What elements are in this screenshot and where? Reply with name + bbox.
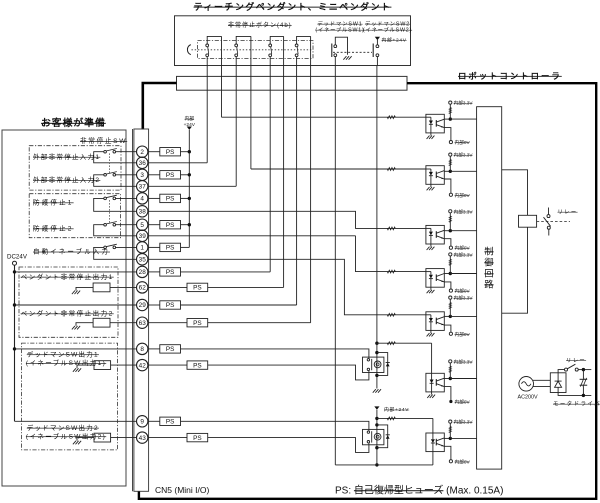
wire PS pin 8 to relay K1 upper contact bbox=[148, 348, 160, 350]
svg-text:3: 3 bbox=[140, 172, 144, 179]
svg-text:外部非常停止入力1: 外部非常停止入力1 bbox=[33, 152, 100, 161]
svg-text:CN5 (Mini I/O): CN5 (Mini I/O) bbox=[155, 485, 209, 495]
svg-text:モータドライバへ: モータドライバへ bbox=[553, 400, 600, 408]
relay K1 suppressor diode branch bbox=[377, 353, 388, 376]
svg-text:内部3.3V: 内部3.3V bbox=[454, 251, 474, 258]
CN5 pin 63 bbox=[137, 317, 148, 328]
junction +24V rail pin 3 bbox=[188, 173, 191, 176]
svg-text:内部0V: 内部0V bbox=[455, 139, 471, 146]
wire relay K2 return / opto7 return bbox=[335, 464, 433, 466]
wire PS pin 43 to relay K2 lower contact bbox=[148, 437, 187, 439]
CN5 pin 43 bbox=[137, 432, 148, 443]
emergency stop button actuator dotted shaft bbox=[192, 49, 314, 51]
optocoupler U1 LED cathode to ground bbox=[430, 124, 432, 135]
external emergency stop input 1 switch bbox=[116, 151, 137, 153]
wire ESB pair2 right to optocoupler2 feed bbox=[250, 36, 252, 169]
wire DC24V to pin 28 bbox=[13, 270, 16, 273]
emergency stop contact pair 3 contacts bbox=[269, 44, 272, 47]
optocoupler U5 LED bbox=[426, 314, 431, 316]
surge absorber bbox=[582, 370, 584, 379]
optocoupler U1 box bbox=[426, 114, 444, 133]
wire pin 62 to PS bbox=[148, 286, 187, 288]
emergency stop contact pair 1 bridge bbox=[207, 36, 221, 44]
optocoupler U7 collector junction bbox=[444, 437, 450, 439]
CN5 connector strip bbox=[134, 129, 149, 491]
optocoupler U2 emitter to internal 0V bbox=[444, 179, 451, 193]
PS fuse for pin 1 bbox=[148, 246, 160, 248]
optocoupler U7 pull-up resistor to internal 3.3V bbox=[449, 423, 451, 438]
wire U6 output to control circuit bbox=[450, 378, 476, 380]
optocoupler U3 LED bbox=[426, 227, 431, 229]
junction surge absorber top bbox=[582, 368, 585, 371]
pendant cable duct rectangle bbox=[177, 76, 408, 90]
svg-text:内部3.3V: 内部3.3V bbox=[454, 152, 474, 159]
optocoupler U5 pull-up resistor to internal 3.3V bbox=[449, 299, 451, 316]
svg-text:内部0V: 内部0V bbox=[455, 288, 471, 295]
external emergency stop input 2 switch bbox=[116, 174, 137, 176]
optocoupler U6 phototransistor bbox=[435, 379, 437, 386]
wire pin 63 to PS bbox=[148, 322, 187, 324]
deadman SW1 chain wire down to relay K2 return bbox=[334, 57, 336, 465]
CN5 pin 62 bbox=[137, 282, 148, 293]
wire U7 output to control circuit bbox=[450, 437, 476, 439]
optocoupler U3 emitter to internal 0V bbox=[444, 239, 451, 246]
optocoupler U2 box bbox=[426, 166, 444, 185]
optocoupler U5 emitter to internal 0V bbox=[444, 325, 451, 332]
relay K2 coil box with monitor contact bbox=[363, 429, 384, 444]
PS fuse for pin 29 bbox=[160, 301, 181, 309]
junction relay K1 bottom bbox=[375, 374, 378, 377]
teach pendant enclosure box bbox=[175, 16, 411, 66]
mechanical linkage SW1-SW2 dashed bbox=[333, 51, 372, 53]
deadman switch SW2 bbox=[372, 44, 374, 58]
svg-text:ロボットコントローラ: ロボットコントローラ bbox=[458, 71, 562, 81]
CN5 pin 42 bbox=[137, 359, 148, 370]
svg-text:2: 2 bbox=[140, 149, 144, 156]
optocoupler U5 collector junction bbox=[444, 315, 450, 317]
svg-text:お客様が準備: お客様が準備 bbox=[41, 116, 106, 129]
wire ESB pair1 right to optocoupler1 feed bbox=[221, 36, 223, 117]
optocoupler U7 phototransistor bbox=[435, 439, 437, 446]
svg-text:内部0V: 内部0V bbox=[455, 331, 471, 338]
CN5 pin 5 bbox=[137, 219, 148, 230]
resistor on optocoupler6 feed bbox=[387, 342, 395, 345]
customer equipment box bbox=[2, 130, 126, 486]
wire pin 38 to optocoupler3 feed bbox=[148, 211, 426, 228]
optocoupler U1 LED bbox=[426, 116, 431, 118]
optocoupler U2 LED bbox=[426, 168, 431, 170]
load on pendant emergency stop output 2 (pin 63) bbox=[93, 318, 110, 327]
svg-text:内部0V: 内部0V bbox=[455, 245, 471, 252]
svg-text:内部0V: 内部0V bbox=[455, 399, 471, 406]
optocoupler U5 phototransistor bbox=[435, 318, 437, 325]
svg-text:43: 43 bbox=[139, 435, 147, 442]
optocoupler U6 collector junction bbox=[444, 378, 450, 380]
dash-dot group box: pendant emergency stop outputs bbox=[19, 267, 118, 337]
wire DC24V to pin 8 bbox=[13, 347, 16, 350]
PS fuse for pin 4 bbox=[148, 197, 160, 199]
rectifier diode symbol bbox=[557, 373, 559, 381]
svg-text:1: 1 bbox=[140, 245, 144, 252]
svg-text:防護停止1: 防護停止1 bbox=[33, 198, 74, 207]
svg-text:御: 御 bbox=[484, 257, 493, 268]
svg-text:(イネーブルSW2): (イネーブルSW2) bbox=[363, 26, 412, 34]
svg-text:内部0V: 内部0V bbox=[455, 458, 471, 465]
svg-text:PS: PS bbox=[166, 346, 175, 353]
PS fuse for pin 3 bbox=[148, 174, 160, 176]
svg-text:PS: PS bbox=[166, 245, 175, 252]
PS fuse for pin 8 bbox=[160, 345, 181, 353]
svg-text:PS: PS bbox=[166, 172, 175, 179]
deadman SW2 chain wire down to relay K1 bbox=[376, 57, 378, 66]
robot controller enclosure thick border bbox=[139, 83, 596, 499]
CN5 pin 35 bbox=[137, 254, 148, 265]
optocoupler U6 box bbox=[426, 373, 444, 392]
optocoupler U6 pull-up resistor to internal 3.3V bbox=[449, 363, 451, 379]
optocoupler U5 LED cathode to ground bbox=[430, 322, 432, 333]
optocoupler U3 collector junction bbox=[444, 230, 450, 232]
svg-text:デッドマンSW出力1: デッドマンSW出力1 bbox=[27, 349, 99, 358]
PS fuse for pin 62 bbox=[187, 283, 208, 291]
optocoupler U4 LED cathode to ground bbox=[430, 279, 432, 290]
linkage dotted line between ESB input switches bbox=[109, 154, 111, 174]
dash-dot group box: deadman SW outputs bbox=[22, 343, 118, 450]
svg-text:非常停止SW: 非常停止SW bbox=[80, 136, 127, 145]
emergency stop contact pair 4 bridge bbox=[297, 36, 311, 44]
svg-text:28: 28 bbox=[139, 269, 147, 276]
PS fuse for pin 43 bbox=[187, 433, 208, 441]
dash-dot group box: protective stop inputs bbox=[29, 194, 120, 238]
svg-text:内部+24V: 内部+24V bbox=[384, 406, 409, 413]
svg-text:(イネーブルSW1): (イネーブルSW1) bbox=[315, 26, 364, 34]
svg-text:PS: PS bbox=[166, 222, 175, 229]
wire U4 output to control circuit bbox=[450, 273, 476, 275]
svg-text:42: 42 bbox=[139, 362, 147, 369]
PS fuse for pin 2 bbox=[148, 151, 160, 153]
resistor on optocoupler3 feed bbox=[387, 227, 395, 230]
wire pin 29 PS to ESB pair4 left bbox=[148, 304, 160, 306]
junction SW2 chain to optocoupler6 feed bbox=[375, 342, 378, 345]
wire ESB pair3 right to pin 62 PS bbox=[283, 36, 285, 287]
CN5 pin 1 bbox=[137, 242, 148, 253]
relay coil box (top right) bbox=[519, 215, 537, 227]
wire optocoupler6 feed bbox=[377, 342, 432, 344]
CN5 pin 2 bbox=[137, 146, 148, 157]
optocoupler U7 box bbox=[426, 433, 444, 452]
svg-text:9: 9 bbox=[140, 419, 144, 426]
emergency stop contact pair 3 bridge bbox=[270, 36, 283, 44]
auto enable input switch bbox=[116, 246, 137, 248]
relay K2 suppressor diode branch bbox=[377, 425, 388, 448]
relay K1 coil box with monitor contact bbox=[363, 357, 384, 372]
load on deadman SW output 1 (pin 42) bbox=[94, 361, 111, 370]
emergency stop contact pair 4 contacts bbox=[295, 44, 298, 47]
CN5 pin 8 bbox=[137, 343, 148, 354]
optocoupler U3 phototransistor bbox=[435, 231, 437, 238]
load on pendant emergency stop output 1 (pin 62) bbox=[93, 283, 110, 292]
resistor on optocoupler5 feed bbox=[387, 313, 395, 316]
resistor on optocoupler1 feed bbox=[387, 116, 395, 119]
optocoupler U4 collector junction bbox=[444, 273, 450, 275]
svg-text:内部3.3V: 内部3.3V bbox=[454, 419, 474, 426]
optocoupler U2 phototransistor bbox=[435, 172, 437, 179]
resistor on optocoupler4 feed bbox=[387, 270, 395, 273]
optocoupler U6 LED cathode to ground bbox=[431, 383, 433, 394]
svg-text:外部非常停止入力2: 外部非常停止入力2 bbox=[33, 175, 100, 184]
optocoupler U2 LED cathode to ground bbox=[430, 176, 432, 187]
svg-text:内部: 内部 bbox=[184, 115, 194, 122]
wire pin 28 PS to ESB pair3 left bbox=[181, 271, 271, 273]
svg-text:38: 38 bbox=[139, 209, 147, 216]
CN5 pin 36 bbox=[137, 157, 148, 168]
wire control circuit to relay coil loop bbox=[502, 170, 528, 216]
relay K2 supply wire bbox=[376, 410, 378, 465]
wire U1 output to control circuit bbox=[450, 118, 476, 120]
optocoupler U7 LED bbox=[432, 433, 434, 439]
emergency stop button dash-dot housing bbox=[198, 41, 314, 59]
wire pin 35 to optocoupler5 feed bbox=[148, 259, 426, 315]
optocoupler U2 pull-up resistor to internal 3.3V bbox=[449, 156, 451, 171]
control circuit box bbox=[477, 107, 502, 469]
optocoupler U1 pull-up resistor to internal 3.3V bbox=[449, 104, 451, 119]
svg-text:路: 路 bbox=[484, 279, 493, 290]
wire pin 36 to ESB pair1 left bbox=[148, 162, 207, 164]
svg-text:PS: PS bbox=[166, 196, 175, 203]
thick cable from pendant duct to CN5 connector bbox=[143, 83, 177, 130]
optocoupler U3 pull-up resistor to internal 3.3V bbox=[449, 213, 451, 231]
svg-text:29: 29 bbox=[139, 302, 147, 309]
svg-text:内部3.3V: 内部3.3V bbox=[454, 295, 474, 302]
wire relay contact to motor driver bbox=[578, 369, 591, 371]
svg-text:内部3.3V: 内部3.3V bbox=[454, 358, 474, 365]
DC24V terminal bbox=[13, 261, 17, 265]
deadman switch SW1 bbox=[331, 44, 333, 58]
svg-text:制: 制 bbox=[484, 246, 493, 257]
optocoupler U7 LED cathode return bbox=[432, 443, 434, 465]
junction relay K2 return to SW1 bbox=[375, 463, 378, 466]
svg-text:PS: PS bbox=[166, 419, 175, 426]
emergency stop contact pair 1 contacts bbox=[206, 44, 209, 47]
svg-text:35: 35 bbox=[139, 257, 147, 264]
protective stop 2 switch bbox=[116, 224, 137, 226]
CN5 pin 3 bbox=[137, 169, 148, 180]
svg-text:防護停止2: 防護停止2 bbox=[33, 224, 74, 233]
optocoupler U6 LED bbox=[431, 373, 433, 379]
svg-text:39: 39 bbox=[139, 233, 147, 240]
junction surge absorber bottom bbox=[582, 394, 585, 397]
svg-text:デッドマンSW2: デッドマンSW2 bbox=[365, 20, 410, 28]
CN5 pin 39 bbox=[137, 230, 148, 241]
svg-text:37: 37 bbox=[139, 184, 147, 191]
optocoupler U1 phototransistor bbox=[435, 120, 437, 127]
svg-text:ペンダント非常停止出力2: ペンダント非常停止出力2 bbox=[21, 309, 114, 318]
CN5 pin 29 bbox=[137, 299, 148, 310]
emergency stop contact pair 2 contacts bbox=[235, 44, 238, 47]
optocoupler U1 collector junction bbox=[444, 118, 450, 120]
relay contact (bottom right) bbox=[558, 370, 564, 373]
PS fuse for pin 42 bbox=[187, 361, 208, 369]
svg-text:内部3.3V: 内部3.3V bbox=[454, 208, 474, 215]
CN5 pin 4 bbox=[137, 193, 148, 204]
svg-text:回: 回 bbox=[484, 269, 493, 279]
resistor on optocoupler7 feed bbox=[387, 417, 395, 420]
PS fuse for pin 28 bbox=[160, 268, 181, 276]
ground below relay K1 bbox=[373, 389, 376, 393]
junction relay K2 bottom bbox=[375, 446, 378, 449]
junction K2 to optocoupler7 feed bbox=[375, 417, 378, 420]
svg-text:63: 63 bbox=[139, 320, 147, 327]
svg-text:PS: PS bbox=[193, 362, 202, 369]
optocoupler U4 LED bbox=[426, 271, 431, 273]
optocoupler U3 LED cathode to ground bbox=[430, 235, 432, 246]
optocoupler U7 emitter to internal 0V bbox=[444, 446, 451, 459]
junction +24V rail pin 5 bbox=[188, 223, 191, 226]
AC200V source bbox=[519, 377, 534, 392]
svg-text:AC200V: AC200V bbox=[518, 394, 538, 400]
svg-text:DC24V: DC24V bbox=[7, 253, 28, 260]
wire U3 output to control circuit bbox=[450, 230, 476, 232]
load on deadman SW output 2 (pin 43) bbox=[94, 433, 111, 442]
svg-text:非常停止ボタン(4b): 非常停止ボタン(4b) bbox=[228, 21, 292, 29]
wires AC source to rectifier bbox=[533, 379, 551, 381]
svg-text:PS: 自己復帰型ヒューズ (Max. 0.15A): PS: 自己復帰型ヒューズ (Max. 0.15A) bbox=[335, 483, 503, 496]
PS fuse for pin 9 bbox=[160, 417, 181, 425]
svg-text:内部+24V: 内部+24V bbox=[382, 37, 407, 44]
optocoupler U4 phototransistor bbox=[435, 274, 437, 281]
svg-text:PS: PS bbox=[193, 435, 202, 442]
optocoupler U1 emitter to internal 0V bbox=[444, 128, 451, 141]
emergency stop button cap arc bbox=[187, 45, 190, 55]
ground in pendant for SW1 bbox=[343, 56, 346, 60]
svg-text:デッドマンSW出力2: デッドマンSW出力2 bbox=[27, 423, 99, 432]
optocoupler U4 pull-up resistor to internal 3.3V bbox=[449, 256, 451, 274]
junction relay K2 top bbox=[375, 423, 378, 426]
CN5 pin 38 bbox=[137, 206, 148, 217]
svg-text:62: 62 bbox=[139, 285, 147, 292]
emergency stop contact pair 2 bridge bbox=[236, 36, 251, 44]
svg-text:リレー: リレー bbox=[566, 358, 586, 364]
CN5 pin 9 bbox=[137, 416, 148, 427]
resistor on optocoupler2 feed bbox=[387, 168, 395, 171]
svg-text:PS: PS bbox=[193, 320, 202, 327]
svg-text:4: 4 bbox=[140, 196, 144, 203]
optocoupler U4 emitter to internal 0V bbox=[444, 282, 451, 289]
wire pin 39 to optocoupler4 feed bbox=[148, 235, 356, 237]
wire pin 28 to PS bbox=[148, 271, 160, 273]
internal +24V rail bbox=[188, 130, 190, 248]
svg-text:5: 5 bbox=[140, 222, 144, 229]
svg-text:PS: PS bbox=[166, 302, 175, 309]
svg-text:リレー: リレー bbox=[558, 210, 578, 216]
relay actuation dashed line bbox=[537, 220, 570, 222]
internal +24V arrow at relay K2 bbox=[374, 406, 379, 409]
protective stop 1 switch bbox=[116, 197, 137, 199]
optocoupler U5 box bbox=[426, 312, 444, 331]
linkage dotted line between protective stop switches bbox=[109, 200, 111, 223]
internal +24V arrow feeding SW2 bbox=[375, 37, 380, 40]
PS fuse for pin 63 bbox=[187, 319, 208, 327]
wire optocoupler7 feed bbox=[377, 417, 433, 419]
junction +24V rail pin 2 bbox=[188, 150, 191, 153]
svg-text:内部3.3V: 内部3.3V bbox=[454, 100, 474, 107]
junction +24V rail pin 4 bbox=[188, 197, 191, 200]
CN5 pin 37 bbox=[137, 181, 148, 192]
svg-text:デッドマンSW1: デッドマンSW1 bbox=[317, 20, 362, 28]
relay contact (top right) bbox=[548, 208, 550, 215]
internal +24V arrow at CN5 bbox=[187, 127, 192, 130]
svg-text:ティーチングペンダント、ミニペンダント: ティーチングペンダント、ミニペンダント bbox=[194, 1, 392, 12]
wire U2 output to control circuit bbox=[450, 170, 476, 172]
wire U5 output to control circuit bbox=[450, 315, 476, 317]
svg-text:PS: PS bbox=[193, 285, 202, 292]
svg-text:PS: PS bbox=[166, 269, 175, 276]
wire DC24V to pin 9 bbox=[15, 420, 137, 422]
optocoupler U3 box bbox=[426, 225, 444, 244]
optocoupler U2 collector junction bbox=[444, 170, 450, 172]
wire pin 37 to ESB pair2 left bbox=[148, 185, 236, 187]
junction relay K1 top bbox=[375, 351, 378, 354]
wire PS pin 42 to relay K1 lower contact bbox=[148, 364, 187, 366]
optocoupler U6 emitter to internal 0V bbox=[444, 387, 451, 402]
svg-text:自動イネーブル入力: 自動イネーブル入力 bbox=[33, 247, 110, 256]
dash-dot group box: external emergency stop inputs bbox=[29, 146, 121, 190]
svg-text:36: 36 bbox=[139, 160, 147, 167]
PS fuse for pin 5 bbox=[148, 224, 160, 226]
svg-text:PS: PS bbox=[166, 149, 175, 156]
rectifier box bbox=[550, 373, 566, 393]
wire ESB pair4 right to pin 63 PS bbox=[310, 36, 312, 322]
wire PS pin 9 to relay K2 upper contact bbox=[148, 420, 160, 422]
svg-text:8: 8 bbox=[140, 346, 144, 353]
wire rectifier bottom to motor driver bbox=[558, 393, 591, 396]
relay K1 coil wire vertical bbox=[376, 343, 378, 388]
wire DC24V to pin 29 bbox=[13, 303, 16, 306]
DC24V rail bbox=[14, 265, 16, 421]
svg-text:ペンダント非常停止出力1: ペンダント非常停止出力1 bbox=[21, 272, 114, 281]
svg-text:内部0V: 内部0V bbox=[455, 192, 471, 199]
CN5 pin 28 bbox=[137, 266, 148, 277]
optocoupler U4 box bbox=[426, 269, 444, 288]
